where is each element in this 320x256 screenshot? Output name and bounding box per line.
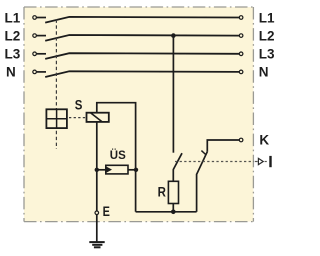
contact blade barb	[201, 151, 206, 155]
surge arrester US (box) with leads	[97, 165, 136, 174]
svg-text:L3: L3	[5, 47, 21, 62]
wire: right contact up and over to terminal K	[207, 140, 239, 152]
mechanical linkage dash outside boundary	[255, 161, 258, 163]
wire: resistor to bottom run	[172, 204, 174, 212]
mechanical linkage (dashed) below transformer	[55, 131, 57, 149]
svg-text:L1: L1	[259, 10, 275, 25]
terminal K	[239, 138, 243, 142]
resistor R	[168, 181, 178, 203]
trip coil S (box with slash)	[87, 113, 109, 122]
svg-text:K: K	[259, 132, 269, 147]
node: junction on L2 line	[171, 33, 176, 38]
svg-text:L3: L3	[259, 47, 275, 62]
contact blade (left contact, to R)	[173, 153, 182, 170]
label I	[269, 156, 271, 167]
svg-text:L1: L1	[5, 10, 21, 25]
label R	[158, 184, 166, 199]
node: junction E-wire / US branch	[95, 168, 99, 172]
arrowhead inside US box	[107, 167, 113, 173]
mechanical linkage (dashed) switch blades to transformer	[55, 20, 57, 109]
ground (earth symbol)	[89, 242, 104, 247]
contact blade (right contact, to K)	[197, 152, 208, 175]
node: junction on bottom run	[171, 210, 176, 215]
wire: left contact to resistor	[172, 170, 174, 182]
svg-text:E: E	[103, 204, 110, 220]
mechanical linkage (dashed) transformer to trip coil S	[69, 117, 86, 119]
svg-text:L2: L2	[5, 28, 21, 43]
svg-text:ÜS: ÜS	[110, 149, 126, 162]
svg-text:R: R	[158, 184, 166, 199]
svg-text:L2: L2	[259, 28, 275, 43]
mechanical linkage dash before label I	[265, 161, 267, 163]
wire: right contact to bottom run	[196, 174, 198, 212]
switch pole L1 (terminal, stub, blade, line to right terminal)	[33, 16, 243, 23]
label S	[75, 96, 83, 112]
svg-text:N: N	[259, 65, 269, 80]
wire: coil top loop over to right branch and down to bottom run	[97, 103, 136, 212]
switch pole N	[33, 70, 243, 77]
mechanical linkage (dashed) contacts to actuator	[175, 161, 254, 163]
svg-text:S: S	[75, 96, 83, 112]
actuator arrow	[258, 158, 263, 164]
node: junction right branch / US branch	[134, 168, 138, 172]
terminal E	[95, 211, 99, 215]
svg-text:N: N	[6, 65, 16, 80]
wire: coil bottom down to terminal E	[96, 122, 98, 211]
wire: tap from L2 down to contact	[172, 36, 174, 153]
switch pole L2	[33, 34, 243, 41]
switch pole L3	[33, 52, 243, 59]
label E	[103, 204, 110, 220]
summation current transformer (quartered square)	[46, 109, 67, 128]
enclosure dash-dot boundary	[24, 7, 253, 222]
wire: bottom run	[136, 211, 197, 213]
device enclosure fill	[24, 7, 253, 222]
wire: terminal E to earth	[96, 215, 98, 242]
